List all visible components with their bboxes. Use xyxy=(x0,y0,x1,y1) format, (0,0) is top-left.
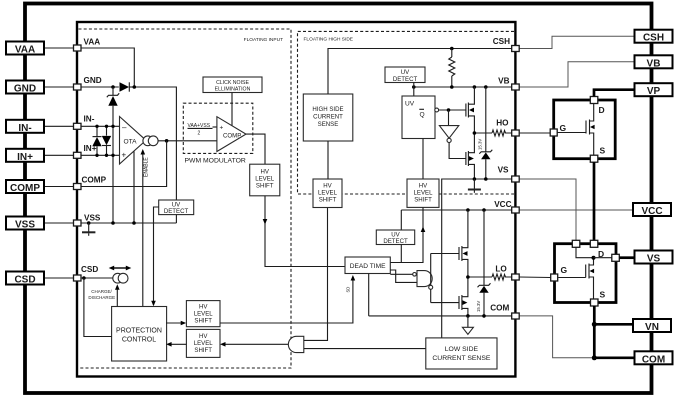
wire CSH net xyxy=(328,49,512,95)
wire UV detect bottom to VSS xyxy=(175,215,177,223)
wire protection to HV level shift with arrow xyxy=(166,321,186,326)
svg-text:15.3V: 15.3V xyxy=(476,301,481,312)
wire UV detect to dead time node xyxy=(400,245,402,263)
pin VB xyxy=(498,76,519,90)
terminal box VSS xyxy=(6,217,44,231)
wire AND gate to HV level shift with arrow xyxy=(220,342,289,347)
junction COM node xyxy=(592,355,597,360)
terminal box VS xyxy=(635,251,673,265)
pin COM xyxy=(490,304,519,320)
pin VAA xyxy=(74,38,101,52)
svg-text:LOW SIDE: LOW SIDE xyxy=(445,346,479,353)
svg-text:COM: COM xyxy=(642,354,665,365)
svg-text:G: G xyxy=(561,265,568,275)
wire VSS net xyxy=(81,222,176,224)
svg-text:DEAD TIME: DEAD TIME xyxy=(350,263,386,270)
wire HV level shift to dead time SD with arrow xyxy=(220,275,355,323)
junction low side drain node xyxy=(592,256,596,260)
junction IN+ clamps xyxy=(95,154,98,157)
wire CSH pin to CSH box xyxy=(519,36,634,48)
pin HO xyxy=(496,119,519,137)
svg-text:FLOATING HIGH SIDE: FLOATING HIGH SIDE xyxy=(304,37,353,43)
transistor NMOS high side driver xyxy=(466,133,475,179)
svg-text:SENSE: SENSE xyxy=(318,121,339,128)
svg-text:OTA: OTA xyxy=(124,139,138,146)
wire VP to high side drain (thick) xyxy=(594,90,635,97)
terminal box IN+ xyxy=(6,149,44,163)
wire high side source to low side drain (thick) xyxy=(593,162,596,240)
block HV LEVEL SHIFT (high side OC) xyxy=(313,179,342,208)
junction CSH resistor xyxy=(450,47,454,51)
block LOW SIDE CURRENT SENSE xyxy=(426,338,497,369)
svg-text:IN+: IN+ xyxy=(17,152,33,163)
svg-text:VB: VB xyxy=(647,58,661,69)
svg-text:G: G xyxy=(560,123,567,133)
terminal box IN- xyxy=(6,120,44,134)
svg-text:CHARGE/: CHARGE/ xyxy=(91,289,112,294)
junction GND-zener xyxy=(111,85,115,89)
svg-text:S: S xyxy=(600,290,606,300)
svg-text:CURRENT: CURRENT xyxy=(313,114,343,121)
pin CSD xyxy=(74,265,99,281)
wire VAA/GND rail to UV detect xyxy=(134,87,176,200)
wire COM pin to COM node xyxy=(519,316,594,358)
svg-text:Q: Q xyxy=(420,112,425,119)
svg-text:–: – xyxy=(122,123,127,132)
gate NAND low side driver xyxy=(413,271,433,290)
svg-text:PWM MODULATOR: PWM MODULATOR xyxy=(185,158,246,165)
arrow bidirectional above current source xyxy=(109,266,132,271)
svg-text:SHIFT: SHIFT xyxy=(194,318,212,325)
svg-text:DETECT: DETECT xyxy=(383,238,408,245)
wire to COM box (thick) xyxy=(594,356,634,359)
junction HO driver rail xyxy=(473,131,477,135)
svg-text:VCC: VCC xyxy=(641,206,662,217)
wire dead time to COM reference xyxy=(368,274,370,316)
wire protection control to current source with arrow xyxy=(115,284,120,306)
wire OTA bottom to VSS xyxy=(133,151,135,223)
terminal box VP xyxy=(635,83,673,97)
svg-text:VS: VS xyxy=(647,254,661,265)
svg-text:VB: VB xyxy=(498,76,509,85)
svg-text:SD: SD xyxy=(346,287,351,293)
svg-text:LEVEL: LEVEL xyxy=(414,190,434,197)
svg-text:HV: HV xyxy=(260,169,269,176)
gate AND (overcurrent) pointing left xyxy=(288,336,303,352)
pin square S high side xyxy=(590,146,605,163)
block HV LEVEL SHIFT (PWM) xyxy=(250,164,280,196)
terminal box COMP xyxy=(6,180,44,194)
svg-text:COMP: COMP xyxy=(82,176,107,185)
svg-text:VSS: VSS xyxy=(84,214,101,223)
svg-text:2: 2 xyxy=(198,131,201,137)
svg-text:VCC: VCC xyxy=(494,200,511,209)
wire GND box to pin xyxy=(45,86,74,88)
current source CSD charge/discharge xyxy=(113,273,128,283)
block DEAD TIME xyxy=(345,257,390,274)
svg-text:CURRENT SENSE: CURRENT SENSE xyxy=(432,355,491,362)
wire AND bottom input from low side current sense xyxy=(304,348,426,350)
wire VCC net xyxy=(401,209,511,211)
wire CSD box to pin xyxy=(45,277,74,279)
pin square S low side xyxy=(591,290,606,307)
pin VSS xyxy=(74,214,101,227)
terminal box VAA xyxy=(6,42,44,56)
svg-text:CSH: CSH xyxy=(493,37,510,46)
pin square VS sense top left xyxy=(572,240,580,247)
svg-text:D: D xyxy=(598,249,604,259)
svg-text:LEVEL: LEVEL xyxy=(255,176,275,183)
transistor Q1 high side MOSFET xyxy=(558,104,595,155)
wire latch output to gates xyxy=(439,109,466,111)
wire HV level shift to protection with arrow xyxy=(166,342,186,347)
block UV DETECT (VAA) xyxy=(159,200,194,215)
pin square VS right edge xyxy=(612,254,620,261)
wire dead time to NAND bottom input xyxy=(390,270,417,282)
junction COM zener rail xyxy=(482,314,486,318)
junction VCC driver rail xyxy=(466,208,470,212)
ground symbol signal ground (COM) xyxy=(462,316,473,334)
terminal box GND xyxy=(6,81,44,95)
svg-text:LEVEL: LEVEL xyxy=(194,340,214,347)
wire click noise to comparator xyxy=(231,93,233,127)
svg-text:COMP: COMP xyxy=(10,183,40,194)
terminal box CSD xyxy=(6,272,44,286)
terminal box VCC xyxy=(633,203,671,217)
diode D3 clamp down xyxy=(102,126,111,155)
terminal box VB xyxy=(635,55,673,69)
inverter (high side driver) xyxy=(439,126,458,143)
svg-text:LO: LO xyxy=(495,265,507,274)
pin VS xyxy=(498,166,520,183)
block HV LEVEL SHIFT (gate signal) xyxy=(407,179,439,207)
resistor HO gate xyxy=(492,130,512,136)
block HV LEVEL SHIFT (SD up) xyxy=(186,301,220,327)
arrow PWM signal down xyxy=(263,219,268,225)
svg-text:LEVEL: LEVEL xyxy=(194,311,214,318)
label VAA+VSS over 2 xyxy=(188,123,217,137)
svg-text:GND: GND xyxy=(84,76,102,85)
svg-text:HO: HO xyxy=(496,119,509,128)
wire latch to HV level shift (set) xyxy=(422,139,424,180)
svg-text:COM: COM xyxy=(490,304,509,313)
block PROTECTION CONTROL xyxy=(112,307,167,362)
wire AND top input from high side HV level shift xyxy=(304,208,328,341)
svg-text:GND: GND xyxy=(14,84,36,95)
terminal box COM xyxy=(635,351,673,365)
pin IN- xyxy=(74,115,95,130)
svg-text:IN-: IN- xyxy=(84,115,95,124)
terminal box CSH xyxy=(635,30,673,44)
wire low side drain to VS box (thick) xyxy=(619,256,634,259)
wire low side source to VN and COM (thick) xyxy=(593,306,596,358)
wire VCC pin to VCC box xyxy=(519,209,633,211)
op-amp OTA xyxy=(120,117,147,165)
transistor PMOS low side driver xyxy=(459,210,468,277)
junction LO driver rail xyxy=(466,275,470,279)
svg-text:COMP: COMP xyxy=(223,133,241,140)
wire zener column IN- to IN+ to VSS xyxy=(112,126,114,223)
block UV DETECT (VCC) xyxy=(376,230,414,245)
wire IN- net xyxy=(81,125,120,127)
svg-text:FLOATING INPUT: FLOATING INPUT xyxy=(244,37,283,43)
svg-text:CLICK NOISE: CLICK NOISE xyxy=(216,80,249,86)
junction VSS ground xyxy=(87,221,91,225)
wire GND net xyxy=(81,86,119,88)
diode D1 on GND rail xyxy=(120,82,135,91)
svg-text:LEVEL: LEVEL xyxy=(318,190,338,197)
resistor CSH to VB xyxy=(449,49,455,88)
low side FET box xyxy=(555,244,617,303)
wire UV detect to protection control with arrow xyxy=(151,207,159,306)
svg-text:VN: VN xyxy=(645,322,659,333)
svg-text:DETECT: DETECT xyxy=(164,208,189,215)
svg-text:PROTECTION: PROTECTION xyxy=(116,328,162,335)
wire OTA output xyxy=(158,140,217,142)
svg-text:VS: VS xyxy=(498,166,509,175)
wire VS pin to low side FET top xyxy=(519,179,576,241)
wire IN+ net xyxy=(81,154,120,156)
svg-text:CONTROL: CONTROL xyxy=(122,337,156,344)
wire inverter to NMOS gate xyxy=(449,143,466,159)
svg-text:ENABLE: ENABLE xyxy=(144,157,150,177)
floating input dashed region xyxy=(79,29,292,368)
dashed box PWM MODULATOR xyxy=(183,103,253,164)
pin LO xyxy=(495,265,519,281)
ground symbol VSS xyxy=(82,223,95,236)
transistor NMOS low side driver xyxy=(459,277,468,316)
wire NAND output rail to gates xyxy=(431,254,459,303)
junction VSS zener column xyxy=(111,221,115,225)
wire COMP net xyxy=(81,141,167,187)
pin square G low side xyxy=(551,265,568,281)
pin square D high side xyxy=(590,97,604,116)
svg-text:SHIFT: SHIFT xyxy=(319,197,337,204)
wire dead time to HV level shift with arrow xyxy=(390,207,425,262)
pin VCC xyxy=(494,200,519,213)
wire VSS box to pin xyxy=(45,222,74,224)
junction VB UV detect xyxy=(412,85,416,89)
svg-text:VP: VP xyxy=(647,86,661,97)
svg-text:D: D xyxy=(599,105,605,115)
label CHARGE/DISCHARGE xyxy=(88,289,115,300)
junction VN node xyxy=(592,322,597,327)
svg-text:IN-: IN- xyxy=(18,123,31,134)
block CLICK NOISE ELLIMINATION xyxy=(203,77,262,93)
diode D2 clamp up xyxy=(92,126,101,155)
junction VB resistor xyxy=(450,85,454,89)
wire to VN box (thick) xyxy=(594,323,634,326)
junction VSS OTA column xyxy=(132,221,136,225)
wire VB net xyxy=(414,86,512,88)
svg-text:HV: HV xyxy=(419,183,428,190)
svg-text:VSS: VSS xyxy=(15,220,35,231)
junction COM driver rail xyxy=(466,314,470,318)
wire VB pin to VB box xyxy=(519,62,634,87)
wire comparator output to HV level shift xyxy=(246,134,265,164)
svg-text:HV: HV xyxy=(199,304,208,311)
wire HO pin to high side gate xyxy=(519,132,550,134)
svg-text:HV: HV xyxy=(323,183,332,190)
svg-text:S: S xyxy=(600,146,606,156)
signal ENABLE with arrow into OTA xyxy=(141,149,150,307)
ground symbol floating high side (VS) xyxy=(468,179,481,193)
junction VS driver rail xyxy=(473,177,477,181)
block HV LEVEL SHIFT (OC down) xyxy=(186,329,220,357)
high side FET box xyxy=(554,100,616,159)
wire VAA box to pin xyxy=(45,47,74,49)
block HIGH SIDE CURRENT SENSE xyxy=(303,94,353,141)
wire VS net xyxy=(442,179,512,338)
pin square G high side xyxy=(550,123,566,136)
wire VCC to UV detect xyxy=(400,210,402,230)
wire IN- box to pin xyxy=(45,125,74,127)
wire VAA net xyxy=(81,48,134,86)
pin square D low side top xyxy=(590,240,604,259)
transistor PMOS high side driver xyxy=(466,87,475,133)
junction latch output xyxy=(447,108,451,112)
svg-text:CSH: CSH xyxy=(643,33,664,44)
svg-text:ELLIMINATION: ELLIMINATION xyxy=(215,87,251,93)
junction CSD xyxy=(82,276,86,280)
svg-text:DETECT: DETECT xyxy=(393,76,418,83)
resistor LO gate xyxy=(492,274,512,280)
junction IN- clamps xyxy=(95,125,98,128)
wire dead time to NAND top input xyxy=(390,273,412,275)
wire LO net xyxy=(468,276,492,278)
current source of OTA output xyxy=(143,136,158,146)
svg-text:15.3V: 15.3V xyxy=(478,139,483,150)
wire CSD net xyxy=(81,277,113,279)
wire HO net xyxy=(474,132,492,134)
junction VCC zener rail xyxy=(482,208,486,212)
zener Z1 GND to IN- xyxy=(107,87,119,126)
wire latch to inverter xyxy=(448,110,450,126)
pin CSH xyxy=(493,37,519,52)
wire COMP box to pin xyxy=(45,186,74,188)
latch UV with Q-bar output xyxy=(402,96,439,139)
junction OTA output to COMP xyxy=(165,139,169,143)
zener Z3 15.3V VCC to COM xyxy=(476,210,491,316)
junction VB driver rail xyxy=(473,85,477,89)
wire current sense to HV level shift xyxy=(327,141,329,179)
svg-text:CSD: CSD xyxy=(81,265,98,274)
junction VS zener rail xyxy=(484,177,488,181)
floating high side dashed region xyxy=(298,31,515,194)
svg-text:+: + xyxy=(122,151,127,160)
svg-text:+: + xyxy=(220,125,224,132)
wire HV level shift to dead time xyxy=(265,196,345,267)
wire IN+ box to pin xyxy=(45,154,74,156)
svg-text:HIGH SIDE: HIGH SIDE xyxy=(312,106,343,113)
zener Z2 15.3V VB to VS xyxy=(478,87,493,179)
pin COMP xyxy=(74,176,107,190)
pin GND xyxy=(74,76,102,90)
svg-text:DISCHARGE: DISCHARGE xyxy=(88,295,115,300)
svg-text:UV: UV xyxy=(405,101,415,108)
junction VAA-diode xyxy=(133,85,137,89)
IC boundary xyxy=(77,22,515,377)
transistor Q2 low side MOSFET xyxy=(558,248,594,300)
block UV DETECT (VB) xyxy=(385,67,425,83)
svg-text:SHIFT: SHIFT xyxy=(194,347,212,354)
svg-text:VAA: VAA xyxy=(15,45,35,56)
op-amp COMP (PWM comparator) xyxy=(217,117,246,152)
junction VB zener rail xyxy=(484,85,488,89)
terminal box VN xyxy=(633,319,671,333)
pin IN+ xyxy=(74,144,97,158)
wire UV detect to latch xyxy=(413,83,415,97)
svg-text:VAA: VAA xyxy=(84,38,101,47)
wire drain node to VS square xyxy=(594,257,612,259)
wire CSD to protection control xyxy=(84,278,112,337)
svg-text:HV: HV xyxy=(199,333,208,340)
svg-text:CSD: CSD xyxy=(14,275,35,286)
wire LO pin to low side gate xyxy=(519,276,550,279)
svg-text:SHIFT: SHIFT xyxy=(414,197,432,204)
wire COM net xyxy=(369,315,512,317)
svg-text:SHIFT: SHIFT xyxy=(256,183,274,190)
